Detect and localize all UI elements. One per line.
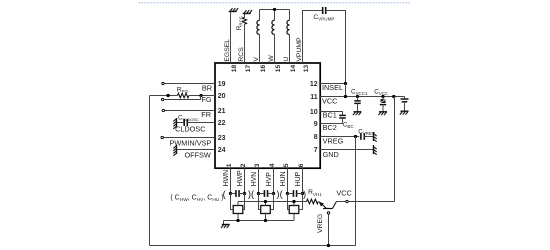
svg-text:5: 5 (283, 163, 290, 167)
svg-text:RCS: RCS (238, 47, 245, 62)
svg-text:CLDOSC: CLDOSC (175, 124, 205, 133)
svg-text:VREG: VREG (323, 137, 344, 146)
svg-text:VCC: VCC (322, 97, 337, 106)
svg-text:21: 21 (218, 108, 226, 115)
svg-text:14: 14 (290, 65, 297, 73)
svg-text:3: 3 (254, 163, 261, 167)
svg-text:12: 12 (310, 81, 318, 88)
svg-text:FG: FG (201, 95, 211, 104)
svg-text:VPUMP: VPUMP (296, 37, 303, 62)
svg-text:U: U (283, 57, 290, 62)
svg-text:FR: FR (201, 110, 211, 119)
svg-text:2: 2 (240, 163, 247, 167)
svg-text:EGSEL: EGSEL (224, 39, 231, 62)
svg-text:W: W (268, 55, 275, 62)
svg-text:7: 7 (314, 147, 318, 154)
svg-text:OFFSW: OFFSW (184, 150, 210, 159)
svg-text:17: 17 (245, 65, 252, 73)
svg-text:): ) (303, 189, 306, 200)
svg-text:24: 24 (218, 147, 226, 154)
svg-text:BC2: BC2 (323, 123, 337, 132)
svg-text:HWP: HWP (237, 170, 244, 186)
svg-text:23: 23 (218, 135, 226, 142)
svg-text:VREG: VREG (317, 214, 324, 233)
svg-text:HUN: HUN (280, 171, 287, 186)
svg-text:9: 9 (314, 121, 318, 128)
svg-text:15: 15 (275, 65, 282, 73)
svg-text:16: 16 (260, 65, 267, 73)
svg-text:)(: )( (276, 189, 283, 200)
svg-text:6: 6 (298, 163, 305, 167)
svg-text:8: 8 (314, 134, 318, 141)
svg-text:4: 4 (269, 163, 276, 167)
svg-text:10: 10 (310, 109, 318, 116)
svg-text:20: 20 (218, 93, 226, 100)
svg-text:BR: BR (202, 83, 212, 92)
svg-text:HVN: HVN (251, 172, 258, 187)
svg-text:11: 11 (310, 94, 318, 101)
svg-text:BC1: BC1 (323, 111, 337, 120)
svg-text:HWN: HWN (223, 170, 230, 186)
svg-text:22: 22 (218, 120, 226, 127)
svg-text:1: 1 (226, 163, 233, 167)
svg-text:GND: GND (323, 150, 339, 159)
svg-text:)(: )( (248, 189, 255, 200)
svg-text:INSEL: INSEL (322, 83, 343, 92)
svg-text:V: V (253, 57, 260, 62)
svg-text:HVP: HVP (266, 172, 273, 187)
svg-text:19: 19 (218, 81, 226, 88)
svg-text:13: 13 (303, 65, 310, 73)
svg-text:18: 18 (231, 65, 238, 73)
svg-text:VCC: VCC (336, 188, 351, 197)
svg-text:HUP: HUP (295, 171, 302, 186)
